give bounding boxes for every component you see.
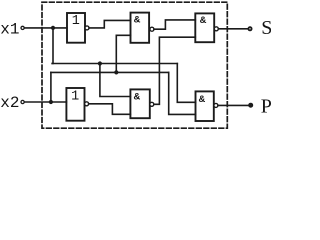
NAND G2 body (131, 13, 150, 43)
wire G1 output to NAND G2 input 1 (89, 20, 130, 28)
wire net A down to NAND G6 input 1 (177, 64, 195, 103)
svg-text:P: P (261, 96, 271, 118)
svg-text:x2: x2 (0, 94, 19, 112)
NAND G2 output bubble (150, 27, 154, 31)
output terminal S (248, 27, 251, 30)
NAND G5 body (130, 89, 149, 118)
wire x2 to inverter G4 (25, 101, 67, 103)
wire G6 output to terminal P (218, 104, 249, 106)
node J2 junction on x2 wire (49, 100, 53, 104)
wire G3 output to terminal S (218, 28, 248, 30)
wire J1 down to net A (51, 28, 54, 64)
NAND G3 output bubble (214, 27, 218, 31)
wire J4 up to NAND G2 input 2 (116, 35, 130, 72)
wire net A horizontal (x1 branch) (52, 63, 177, 65)
wire G2 output to NAND G3 input 1 (154, 20, 195, 29)
inverter G1 output bubble (85, 26, 89, 30)
svg-text:x1: x1 (0, 21, 19, 39)
svg-text:&: & (134, 15, 141, 27)
node J3 junction on net A (98, 61, 102, 65)
svg-text:S: S (261, 17, 271, 39)
wire G5 output up to NAND G3 input 2 (154, 37, 195, 104)
node J1 junction on x1 wire (51, 26, 55, 30)
wire net B down to NAND G6 input 2 (169, 72, 196, 114)
svg-text:1: 1 (71, 89, 79, 104)
input terminal x1 (21, 26, 24, 29)
wire x1 to inverter G1 (25, 27, 67, 29)
dashed block frame (42, 2, 227, 128)
output terminal P (249, 103, 253, 107)
inverter G4 body (66, 88, 84, 121)
wire G4 output to NAND G5 input 2 (89, 104, 131, 115)
node J4 junction on net B (114, 70, 118, 74)
svg-text:1: 1 (72, 14, 80, 29)
wire J3 down to NAND G5 input 1 (100, 64, 130, 97)
svg-text:&: & (134, 92, 141, 104)
wire J2 up to net B (50, 72, 52, 102)
NAND G3 body (195, 13, 214, 42)
svg-text:&: & (199, 94, 206, 106)
NAND G6 body (196, 91, 214, 121)
inverter G4 output bubble (85, 102, 89, 106)
svg-text:&: & (200, 15, 207, 27)
NAND G5 output bubble (150, 102, 154, 106)
inverter G1 body (67, 13, 85, 43)
NAND G6 output bubble (214, 103, 218, 107)
input terminal x2 (21, 100, 24, 103)
wire net B horizontal (x2 branch) (51, 71, 169, 73)
